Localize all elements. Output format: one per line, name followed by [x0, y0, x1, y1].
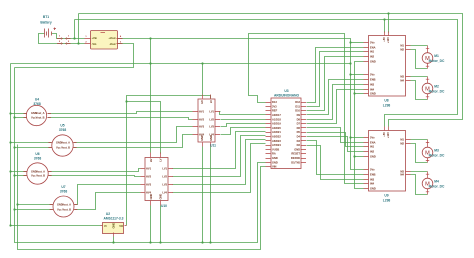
svg-text:+5V: +5V — [382, 37, 386, 42]
svg-text:A5/D22: A5/D22 — [272, 135, 281, 139]
wire U9 OUT3 to motor M4 — [411, 171, 428, 173]
svg-text:GND: GND — [370, 187, 376, 191]
encoder U7 — [50, 196, 78, 217]
wire U7 Vout_B to lower module HV4 — [75, 193, 141, 210]
svg-text:IN3: IN3 — [370, 178, 375, 182]
node junction U5 GND — [13, 146, 15, 148]
wire arduino D7 to U8 IN4 — [307, 90, 364, 124]
node junction 5V bus AMS input — [9, 224, 11, 226]
svg-text:VUSB: VUSB — [272, 147, 279, 151]
wire inner top bus wrapping right side to U9 power pin — [75, 20, 458, 127]
node junction U8 riser outer — [387, 12, 389, 14]
node junction 5V run at driver vertical — [349, 62, 351, 64]
wire left 5V bus top run across to driver supply vertical — [11, 63, 351, 65]
svg-text:+12V: +12V — [386, 37, 390, 43]
wire U7 Vout_A to lower module HV3 — [75, 185, 141, 205]
wire arduino D11 to U8 IN1 — [307, 52, 364, 107]
wire arduino D5 to U9 IN1 — [307, 133, 364, 147]
wire arduino D2 to U9 IN3 — [307, 146, 364, 180]
svg-text:M1: M1 — [400, 44, 404, 48]
svg-text:VI: VI — [104, 224, 107, 228]
arduino nano U3 — [266, 98, 307, 169]
wire U9 OUT4 to motor M4 bottom — [411, 175, 428, 195]
wire lower module LV3 to arduino A6 — [173, 140, 266, 185]
wire upper module GND pin b to bottom bus — [210, 147, 212, 243]
wire regulator GND out to left GND bus — [15, 44, 134, 68]
wire gnd chain branch U8 g2 — [355, 93, 364, 95]
node junction U4 GND — [13, 116, 15, 118]
encoder U6 — [23, 163, 51, 184]
wire 5V branch to U9 group1 — [351, 137, 364, 139]
node junction upper module gnd b — [209, 241, 211, 243]
wire arduino D13 long route to U9 IN4 — [249, 34, 364, 184]
svg-text:Vout_A: Vout_A — [36, 111, 45, 115]
wire U6 Vout_A to lower module HV1 — [49, 169, 141, 172]
svg-text:M2: M2 — [434, 85, 439, 89]
svg-text:RA: RA — [272, 152, 276, 156]
svg-text:Vout_A: Vout_A — [61, 140, 70, 144]
wire arduino D10 to U8 IN2 — [307, 57, 364, 111]
svg-text:HV3: HV3 — [146, 183, 152, 187]
svg-text:GND: GND — [158, 194, 162, 200]
motor M3 — [422, 140, 433, 163]
svg-text:HV1: HV1 — [199, 110, 205, 114]
svg-text:D10: D10 — [295, 109, 300, 113]
svg-text:Motor_DC: Motor_DC — [429, 154, 445, 158]
wire left 5V bus down to AMS1117 input — [11, 64, 101, 226]
svg-text:LV: LV — [209, 100, 213, 103]
svg-text:GND: GND — [294, 147, 300, 151]
svg-text:U3: U3 — [284, 89, 288, 93]
svg-text:L298: L298 — [383, 104, 391, 108]
wire 5V branch to U8 group2 — [351, 74, 364, 76]
wire U9 OUT1 to motor M3 — [411, 139, 428, 141]
wire lower module LV2 to arduino A5 — [173, 136, 266, 177]
svg-text:ENB: ENB — [370, 173, 376, 177]
svg-text:D9: D9 — [297, 113, 301, 117]
regulator AMS1117-3.3 U2 — [101, 223, 127, 237]
wire gnd chain branch U9 g1 — [355, 156, 364, 158]
wire arduino D4 to U9 IN2 — [307, 137, 364, 152]
wire arduino D6 to U9 ENA — [307, 128, 364, 143]
wire arduino D9 to U8 ENB — [307, 80, 364, 115]
wire U5 Vout_B to upper module HV4 — [74, 135, 193, 148]
svg-text:Motor_DC: Motor_DC — [429, 185, 445, 189]
svg-text:U2: U2 — [106, 212, 110, 216]
svg-text:LV4: LV4 — [162, 191, 167, 195]
svg-text:ARDUINONANO: ARDUINONANO — [274, 94, 300, 98]
svg-text:A2/D19: A2/D19 — [272, 122, 281, 126]
svg-text:A1/D18: A1/D18 — [272, 117, 281, 121]
svg-text:M4: M4 — [400, 173, 404, 177]
svg-text:IN1: IN1 — [370, 50, 375, 54]
svg-text:IN1: IN1 — [370, 145, 375, 149]
svg-text:D1/TX0: D1/TX0 — [291, 160, 300, 164]
svg-text:GND: GND — [112, 223, 116, 229]
svg-text:M1: M1 — [434, 54, 439, 58]
node junction U6 GND — [13, 174, 15, 176]
svg-text:GND: GND — [370, 155, 376, 159]
svg-text:D4: D4 — [297, 135, 301, 139]
node junction 5V U9 g1 — [349, 136, 351, 138]
node junction 5V U8 g1 — [349, 41, 351, 43]
svg-text:U9: U9 — [384, 194, 388, 198]
wire upper module LV4 to arduino A3 — [221, 128, 266, 135]
svg-text:5Vo: 5Vo — [370, 41, 375, 45]
svg-text:HV3: HV3 — [199, 125, 205, 129]
encoder U5 — [48, 135, 76, 156]
svg-text:D5: D5 — [297, 130, 301, 134]
wire battery plus — [52, 34, 85, 39]
node junction x151 with left 5V run — [149, 62, 151, 64]
wire 3V3 net from AMS1117 output up to upper module LV pin — [127, 96, 211, 226]
wire U8 OUT3 to motor M2 — [411, 76, 428, 78]
svg-text:HV: HV — [149, 158, 153, 162]
node junction gnd chain U9 g1 — [353, 155, 355, 157]
svg-text:LV3: LV3 — [209, 125, 214, 129]
svg-text:+Vout: +Vout — [108, 36, 115, 40]
node junction U6 Vcc — [9, 170, 11, 172]
regulator module DC-DC yellow box — [85, 31, 123, 50]
wire U7 Vcc pin to VIN vertical — [18, 204, 53, 206]
svg-text:HV2: HV2 — [199, 118, 205, 122]
svg-text:Vout_B: Vout_B — [36, 173, 45, 177]
svg-text:3768: 3768 — [60, 190, 68, 194]
svg-text:GND: GND — [272, 160, 278, 164]
wire upper module LV1 to arduino A0 — [220, 112, 266, 115]
svg-text:ENA: ENA — [370, 141, 376, 145]
svg-text:IN4: IN4 — [370, 182, 375, 186]
node junction U5 Vcc — [9, 141, 11, 143]
motor driver U9 L298 — [364, 127, 411, 192]
wire upper module LV2 to arduino A1 — [221, 119, 266, 121]
node junction battery plus riser — [73, 37, 75, 39]
svg-text:LV1: LV1 — [209, 110, 214, 114]
wire U6 Vcc pin to 5V bus — [11, 171, 27, 173]
svg-text:RESET: RESET — [291, 152, 300, 156]
wire U9 OUT2 to motor M3 bottom — [411, 144, 428, 163]
battery BT1 — [45, 28, 57, 38]
wire U5 GND pin to GND bus — [15, 147, 52, 149]
svg-text:A3/D20: A3/D20 — [272, 126, 281, 130]
svg-text:IN3: IN3 — [370, 83, 375, 87]
wire U4 Vout_B to upper module HV2 — [48, 118, 193, 120]
wire upper module LV3 to arduino A2 — [221, 124, 266, 127]
svg-text:U4: U4 — [35, 98, 39, 102]
wire outer top bus wrapping right side to U9 power pin — [79, 14, 463, 127]
node junction 5V run at upper module branch — [201, 62, 203, 64]
svg-text:HV1: HV1 — [146, 167, 152, 171]
wire arduino D12 to U8 ENA — [307, 48, 364, 103]
svg-text:U7: U7 — [61, 185, 65, 189]
node junction AMS gnd — [112, 241, 114, 243]
wire U6 GND pin to GND bus — [15, 175, 27, 177]
wire battery minus loop — [39, 34, 85, 44]
connector pins battery plus wire — [57, 36, 71, 40]
svg-text:M4: M4 — [400, 79, 404, 83]
svg-text:D3: D3 — [297, 139, 301, 143]
wire lower module GND pin a to bottom bus — [150, 206, 152, 243]
wire U7 GND pin to GND bus — [15, 209, 53, 211]
node junction 3V3 branch — [125, 100, 127, 102]
svg-text:3768: 3768 — [59, 128, 67, 132]
svg-text:IN4: IN4 — [370, 88, 375, 92]
svg-text:VIN: VIN — [272, 165, 276, 169]
svg-text:GND: GND — [370, 92, 376, 96]
svg-text:3768: 3768 — [34, 156, 42, 160]
svg-text:+12V: +12V — [386, 132, 390, 138]
svg-text:Vout_B: Vout_B — [61, 145, 70, 149]
wire U5 Vcc pin to 5V bus — [11, 142, 52, 144]
wire U8 OUT4 to motor M2 bottom — [411, 81, 428, 100]
svg-text:Motor_DC: Motor_DC — [429, 59, 445, 63]
svg-text:LV2: LV2 — [209, 118, 214, 122]
svg-text:Vout_B: Vout_B — [36, 115, 45, 119]
wire U4 Vout_A to upper module HV1 — [48, 112, 193, 114]
node junction U8 riser inner — [383, 18, 385, 20]
wire upper module GND pin a to bottom bus — [202, 147, 204, 243]
svg-text:Battery: Battery — [40, 21, 52, 25]
wire 3V3 branch to lower module LV pin — [127, 102, 161, 154]
level shifter module U11 upper — [193, 95, 221, 147]
svg-text:+5V: +5V — [382, 132, 386, 137]
svg-text:U5: U5 — [60, 123, 64, 127]
node junction U4 Vcc — [9, 112, 11, 114]
svg-text:Motor_DC: Motor_DC — [429, 90, 445, 94]
svg-text:M4: M4 — [434, 180, 439, 184]
node junction battery minus riser — [77, 42, 79, 44]
connector pins battery minus wire — [57, 41, 71, 44]
svg-text:3768: 3768 — [33, 102, 41, 106]
svg-text:GND: GND — [272, 156, 278, 160]
wire branch down to upper module HV pin — [202, 64, 204, 95]
svg-text:D13: D13 — [272, 100, 277, 104]
svg-text:D6: D6 — [297, 126, 301, 130]
svg-text:Vout_A: Vout_A — [36, 169, 45, 173]
motor driver U8 L298 — [364, 32, 411, 97]
svg-text:5Vo: 5Vo — [370, 136, 375, 140]
wire U8 OUT2 to motor M1 bottom — [411, 50, 428, 69]
motor M2 — [422, 77, 433, 100]
wire driver GND chain vertical — [355, 62, 364, 189]
svg-text:D0/RX0: D0/RX0 — [291, 156, 301, 160]
svg-text:ENB: ENB — [370, 78, 376, 82]
svg-text:M2: M2 — [400, 142, 404, 146]
svg-text:A6/D23: A6/D23 — [272, 139, 281, 143]
node junction 5V at x151 — [149, 37, 151, 39]
svg-text:IN2: IN2 — [370, 150, 375, 154]
node junction gnd chain U8 g2 — [353, 92, 355, 94]
svg-text:-Vin: -Vin — [92, 42, 97, 46]
svg-text:U8: U8 — [384, 99, 388, 103]
wire arduino D8 to U8 IN3 — [307, 85, 364, 120]
svg-text:REF: REF — [272, 109, 278, 113]
wire U8 power pin riser to inner bus — [384, 20, 386, 33]
svg-text:3V3: 3V3 — [272, 104, 277, 108]
svg-text:D7: D7 — [297, 122, 301, 126]
wire U8 power pin riser to outer bus — [388, 14, 390, 33]
svg-text:D12: D12 — [295, 100, 300, 104]
svg-text:GND: GND — [370, 60, 376, 64]
wire U6 Vout_B to lower module HV2 — [49, 176, 141, 177]
svg-text:LV2: LV2 — [162, 175, 167, 179]
wire VIN bus left vertical and bottom run to arduino VIN — [18, 145, 266, 250]
svg-text:-Vout: -Vout — [109, 42, 116, 46]
wire 5V drop at x151 to lower module HV pin — [150, 39, 152, 153]
wire left GND bus down and bottom bus to arduino GND — [15, 68, 266, 243]
wire 5V branch to U8 group1 — [351, 42, 364, 44]
node junction U7 GND — [13, 208, 15, 210]
svg-text:A0/D17: A0/D17 — [272, 113, 281, 117]
svg-text:GND: GND — [200, 135, 204, 141]
svg-text:+Vin: +Vin — [92, 36, 98, 40]
svg-text:A4/D21: A4/D21 — [272, 130, 281, 134]
svg-text:ENA: ENA — [370, 46, 376, 50]
svg-text:M3: M3 — [400, 75, 404, 79]
wire lower module LV1 to arduino A4 — [173, 132, 266, 169]
svg-text:D8: D8 — [297, 117, 301, 121]
wire 5V net from regulator Vout to drivers — [117, 39, 364, 170]
svg-text:D11: D11 — [295, 104, 300, 108]
svg-text:LV: LV — [158, 158, 162, 161]
svg-text:U11: U11 — [210, 144, 216, 148]
wire riser battery minus to outer top bus — [78, 14, 80, 44]
svg-text:Vout_A: Vout_A — [62, 202, 71, 206]
level shifter module U10 lower — [141, 153, 174, 206]
svg-text:VO: VO — [119, 224, 123, 228]
wire U5 Vout_A to upper module HV3 — [74, 127, 193, 143]
encoder U4 — [24, 105, 52, 125]
wire arduino D3 to U9 ENB — [307, 141, 364, 175]
svg-text:D2: D2 — [297, 143, 301, 147]
svg-text:HV: HV — [200, 100, 204, 104]
wire U4 GND pin to GND bus — [15, 117, 27, 119]
svg-text:5Vo: 5Vo — [370, 73, 375, 77]
svg-text:BT1: BT1 — [43, 15, 49, 19]
svg-text:HV2: HV2 — [146, 175, 152, 179]
svg-text:GND: GND — [149, 194, 153, 200]
svg-text:AMS1117-3.3: AMS1117-3.3 — [104, 217, 124, 221]
svg-text:M3: M3 — [434, 149, 439, 153]
svg-text:U6: U6 — [35, 152, 39, 156]
svg-text:A7/D24: A7/D24 — [272, 143, 281, 147]
wire U4 Vcc pin to 5V bus — [11, 113, 27, 115]
svg-text:U10: U10 — [161, 204, 167, 208]
svg-text:Vout_B: Vout_B — [62, 207, 71, 211]
svg-text:M1: M1 — [400, 138, 404, 142]
node junction upper module gnd a — [201, 241, 203, 243]
svg-text:GND: GND — [209, 135, 213, 141]
wire lower module GND pin b to bottom bus — [160, 206, 162, 243]
svg-text:IN2: IN2 — [370, 55, 375, 59]
node junction U7 Vcc — [16, 203, 18, 205]
wire lower module LV4 to arduino A7 — [173, 144, 266, 193]
wire riser battery plus to inner top bus — [74, 20, 76, 39]
svg-text:M2: M2 — [400, 48, 404, 52]
wire AMS1117 GND to bottom bus — [113, 237, 115, 243]
wire U8 OUT1 to motor M1 — [411, 45, 428, 47]
svg-text:LV3: LV3 — [162, 183, 167, 187]
svg-text:5Vo: 5Vo — [370, 168, 375, 172]
motor M4 — [422, 172, 433, 195]
svg-text:LV1: LV1 — [162, 167, 167, 171]
svg-text:L298: L298 — [383, 199, 391, 203]
node junction lower module gnd b — [159, 241, 161, 243]
motor M1 — [422, 46, 433, 69]
node junction lower module gnd a — [149, 241, 151, 243]
